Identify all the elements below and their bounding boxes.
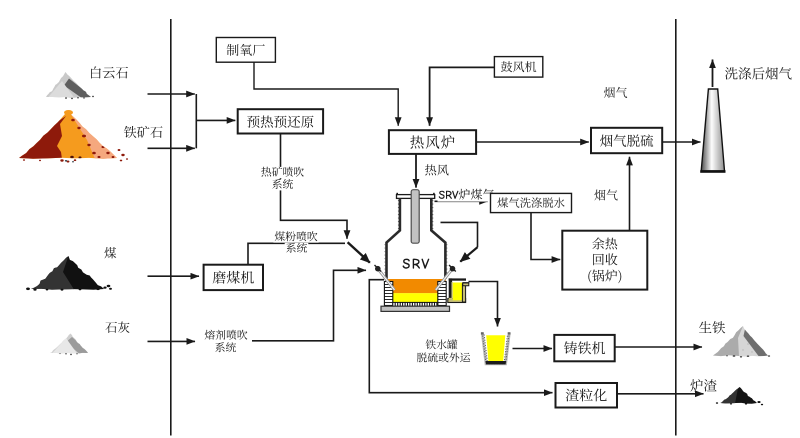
- wire slag to granulation: [369, 280, 552, 393]
- wire oxygen plant to hot stove: [254, 62, 398, 126]
- wire prereduction to SRV: [281, 134, 348, 239]
- label 生铁: [699, 321, 725, 334]
- label 洗涤后烟气: [725, 67, 792, 80]
- label 铁水罐: [426, 339, 458, 349]
- label 白云石: [91, 66, 128, 78]
- metal layer yellow: [393, 293, 443, 302]
- right boundary line: [675, 19, 677, 436]
- box 鼓风机: [494, 57, 542, 78]
- wire ladle to caster: [513, 348, 553, 350]
- slag layer orange: [386, 279, 446, 293]
- label 熔剂喷吹系统: [205, 330, 248, 340]
- wire mill to junction: [248, 243, 345, 264]
- wire hot stove to desulfurization: [476, 141, 589, 143]
- label 铁矿石: [124, 126, 163, 138]
- ladle 铁水罐: [482, 333, 509, 364]
- wire bracket to prereduction: [196, 119, 235, 121]
- label 烟气 lower: [594, 189, 617, 200]
- left boundary line: [170, 19, 172, 436]
- wire granulation to slag pile: [617, 393, 704, 395]
- lance tube: [411, 190, 419, 244]
- label 石灰: [105, 322, 129, 334]
- wire coal feed: [148, 275, 200, 277]
- wire boiler to desulfurization: [629, 157, 631, 231]
- furnace base plate: [381, 306, 450, 311]
- box 铸铁机: [554, 335, 614, 361]
- hearth bottom brick row: [393, 302, 438, 306]
- wire flux to left tuyere: [252, 270, 366, 341]
- hearth right brick wall: [438, 282, 446, 306]
- wire gas recirc bracket: [441, 222, 478, 247]
- box 预热预还原: [238, 109, 323, 133]
- label 煤: [104, 247, 116, 259]
- arrow gas into right tuyere: [460, 247, 477, 261]
- wire hot stove to lance: [415, 154, 417, 188]
- wire feed bracket: [195, 94, 197, 148]
- label 脱硫或外运: [417, 352, 470, 362]
- box 制氧厂: [216, 38, 275, 63]
- wire lime feed: [148, 340, 196, 342]
- left tuyere: [379, 270, 395, 291]
- wire dolomite feed: [148, 93, 195, 95]
- wire blower to hot stove: [430, 67, 495, 125]
- label 煤粉喷吹系统: [273, 231, 318, 242]
- box 余热回收锅炉: [562, 231, 647, 290]
- wire forehearth to ladle: [469, 282, 498, 327]
- furnace top flange: [397, 195, 435, 199]
- wire washer to boiler: [531, 213, 560, 260]
- right tuyere: [436, 270, 452, 291]
- box 热风炉: [389, 130, 476, 154]
- furnace neck right wall: [431, 198, 445, 279]
- box 煤气洗涤脱水: [491, 193, 572, 212]
- box 烟气脱硫: [591, 128, 662, 153]
- forehearth: [448, 299, 466, 303]
- label 热风: [425, 164, 449, 175]
- box 磨煤机: [204, 265, 263, 290]
- hearth left brick wall: [384, 282, 392, 306]
- wire iron ore feed: [148, 147, 195, 149]
- wire caster to pig iron: [615, 346, 702, 348]
- furnace neck left wall: [387, 198, 400, 281]
- label SRV: [403, 259, 430, 269]
- arrow stack emission: [712, 60, 714, 88]
- wire SRV gas to washer: [435, 200, 488, 202]
- label SRV炉煤气: [438, 189, 496, 202]
- wire desulfurization to stack: [662, 141, 700, 143]
- label 热矿喷吹系统: [260, 167, 305, 178]
- label 烟气 top: [604, 87, 627, 98]
- label 炉渣: [690, 379, 716, 392]
- box 渣粒化: [556, 383, 618, 408]
- arrow hot ore into furnace: [348, 242, 370, 262]
